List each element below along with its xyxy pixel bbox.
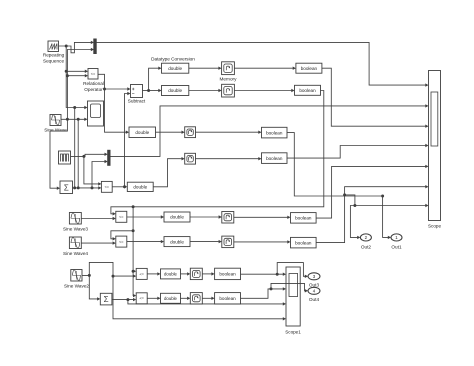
svg-text:Out4: Out4 [309,297,320,302]
wire RelOp2 -> double5 [127,215,164,218]
svg-text:Relational: Relational [83,81,104,86]
svg-text:<=: <= [119,215,124,219]
wire boolean7 -> Scope1 in1 [241,273,287,276]
svg-text:boolean: boolean [219,296,236,301]
wire Memory7 -> boolean7 [202,272,214,275]
junction Sum output row x=78.2 [77,186,80,189]
svg-text:double: double [133,185,147,190]
svg-text:Out1: Out1 [391,245,402,250]
wire RelOp5 -> double8 [147,297,160,300]
junction carrier trunk y=230.8 [132,229,135,232]
wire Sum1 -> Relational Operator5 in2 [112,298,136,301]
block Data Type Conversion double8 [161,293,181,303]
svg-text:double: double [168,88,182,93]
wire Subtract out -> double2 [143,89,162,92]
wire Memory5 -> boolean5 [234,216,291,219]
block Memory6 [222,236,234,248]
block Relational Operator1 <= [101,181,112,192]
junction on Sum output row (x=74.7) [73,186,76,189]
label Memory [220,77,238,82]
wire double2 -> Memory2 [189,89,222,92]
block Sine Wave2 [71,270,82,282]
outport Out4 [308,287,320,294]
block Data Type Conversion double4 [127,182,153,191]
label Repeating Sequence [43,53,65,64]
svg-text:boolean: boolean [266,156,283,161]
junction sine riser / RelOp in2 [66,74,69,77]
block Memory3 [185,127,196,138]
junction RepSeq trunk / RelOp in1 [65,70,68,73]
junction carrier trunk x=133.1 y=206.8 [132,205,135,208]
wire branch down -> Out2 [350,206,360,240]
svg-text:double: double [170,239,184,244]
wire Sum1 -> Scope1 in3 [128,300,286,306]
label Out2 [361,245,372,250]
svg-text:boolean: boolean [295,216,312,221]
label Relational Operator [83,81,104,92]
svg-text:double: double [164,271,178,276]
wire Memory3 -> boolean3 [196,131,262,134]
block Relational Operator4 <= [136,268,147,279]
label Scope [428,224,441,229]
svg-text:Sine Wave: Sine Wave [44,128,67,133]
junction boolean6 riser [343,193,346,196]
junction carrier trunk y=271.2 [132,270,135,273]
junction boolean8 -> Out4 branch [270,287,273,290]
block Data Type Conversion double5 [164,212,190,222]
block Data Type Conversion boolean7 [215,268,241,279]
svg-text:Sine Wave2: Sine Wave2 [64,284,89,289]
svg-text:<=: <= [139,297,144,301]
svg-text:Σ: Σ [64,183,69,192]
wire Sine Wave2 over-jog -> Relational Operator4 in2 [82,262,136,277]
svg-text:<=: <= [105,185,110,189]
wire double6 -> Memory6 [190,240,222,243]
svg-text:Sequence: Sequence [43,58,65,63]
svg-text:<=: <= [119,240,124,244]
junction Subtract output [147,89,150,92]
junction sine branch x=78.2 [77,118,80,121]
label Sine Wave4 [63,251,88,256]
block Data Type Conversion boolean5 [291,213,317,224]
outport Out2 [360,234,371,241]
wire double4 -> Memory4 (jog up) [153,157,185,187]
wire trunk -> Relational Operator5 in1 [133,271,136,297]
wire boolean1 -> Scope in3 [322,68,429,128]
block Sine Wave [50,115,61,126]
block Data Type Conversion boolean4 [262,153,288,164]
junction at Out1 drop [381,195,384,198]
wire Memory6 -> boolean6 [234,240,291,243]
block Sine Wave4 [69,237,81,249]
block Data Type Conversion boolean1 [296,63,322,73]
wire double5 -> Memory5 [190,215,222,218]
wire Mux1 -> Scope in1 [96,42,428,86]
wire RepSeq trunk down to Scope2 in1 [66,46,87,109]
block Data Type Conversion boolean2 [295,85,321,95]
svg-text:Repeating: Repeating [43,53,65,58]
svg-text:Sine Wave4: Sine Wave4 [63,251,88,256]
block Relational Operator3 <= [116,236,127,247]
block Memory5 [222,212,234,224]
wire Sine detour down to Sum input [50,119,67,190]
block Repeating Sequence [48,41,59,52]
wire RelOp1 out -> double4 [112,185,127,188]
block Scope (7-input) [429,71,441,221]
wire double7 -> Memory7 [181,272,191,275]
junction on RepSeq output [65,45,68,48]
label Out1 [391,245,402,250]
label Sine Wave3 [63,227,88,232]
svg-text:Datatype Conversion: Datatype Conversion [151,57,195,62]
block Data Type Conversion boolean6 [291,237,317,248]
block Sum (sigma) [60,181,73,194]
block Sum1 (sigma) [100,293,112,305]
outport Out1 [391,234,402,241]
block Relational Operator2 <= [116,211,127,222]
block Memory7 [190,268,202,279]
wire SW2 -> Scope1 in4 [113,276,286,320]
block Data Type Conversion boolean8 [215,293,241,304]
block Memory4 [185,153,196,164]
block Subtract [131,85,143,98]
svg-text:double: double [135,130,149,135]
wire trunk -> Relational Operator3 in1 [111,207,133,241]
svg-text:boolean: boolean [295,240,312,245]
wire Mux2 -> Scope in2 [110,104,429,156]
wire Sine Wave4 -> Relational Operator3 in2 [81,241,116,244]
junction Sine Wave2 output [88,274,91,277]
label Subtract [128,99,146,104]
wire Sine riser up to Mux1 in2 [67,48,94,120]
junction Sum output to Mux2 riser [91,186,94,189]
wire double1 -> Memory1 [189,67,222,70]
wire riser Sum -> Mux2 in2 [92,160,108,188]
block Scope1 (4-input) [286,267,300,326]
svg-text:boolean: boolean [219,272,236,277]
block Memory2 [222,84,235,97]
junction Stair output [82,155,85,158]
block Data Type Conversion double6 [164,237,190,247]
wire branch -> Out3 [277,263,308,278]
wire Sine Wave -> Scope2 in2 [61,118,88,121]
wire boolean2 -> Relational Operator2 in1 (carrier trunk) [111,91,324,216]
junction RelOp trunk / Subtract in1 [103,88,106,91]
wire double3 -> Memory3 [156,131,185,134]
wire Memory4 -> boolean4 [196,157,262,160]
svg-text:Out2: Out2 [361,245,372,250]
block Data Type Conversion double1 [162,63,189,73]
wire Sine -> Relational Operator in2 [67,74,88,77]
block Relational Operator <= [88,69,98,80]
junction Sine output riser [66,118,69,121]
wire double8 -> Memory8 [181,297,191,300]
wire branch down from Scope2 in1 line [74,108,76,188]
wire RelOp -> Subtract in1 [105,87,131,90]
svg-text:Subtract: Subtract [128,99,146,104]
junction SW2 line -> Scope1 in4 drop [112,275,115,278]
block Relational Operator5 <= [136,293,147,304]
junction RelOp1 output [123,185,126,188]
svg-text:boolean: boolean [266,130,283,135]
label Datatype Conversion [151,57,195,62]
wire Sum -> Relational Operator1 in2 [73,186,102,189]
wire riser Subtract -> double1 [149,67,162,91]
wire Memory8 -> boolean8 [202,297,214,300]
svg-text:Scope1: Scope1 [285,330,301,335]
outport Out3 [308,273,320,280]
block Memory8 [190,293,202,304]
wire branch -> Scope in7 [345,195,429,207]
mux Mux1 [94,39,96,54]
wire Sine Wave3 -> Relational Operator2 in2 [81,217,116,220]
wire boolean3 -> Out1 [287,133,391,240]
wire RelOp out -> double3 input [98,74,129,134]
label Out4 [309,297,320,302]
wire Sine Wave2 -> Sum1 input [89,275,100,300]
junction Scope2 in1 branch [73,106,76,109]
svg-text:double: double [170,215,184,220]
wire trunk -> Relational Operator4 in1 [133,231,136,273]
wire RepSeq -> Relational Operator in1 [66,70,88,73]
junction Sum1 output [126,298,129,301]
wire Memory1 -> boolean1 [234,67,296,70]
wire Stair -> Relational Operator1 in1 [84,156,102,185]
label Sine Wave [44,128,67,133]
wire Memory2 -> boolean2 [234,89,294,92]
mux Mux2 [108,150,110,165]
wire boolean5 -> Scope in5 [316,165,428,218]
wire RelOp4 -> double7 [147,272,160,275]
svg-text:Out3: Out3 [309,283,320,288]
block Data Type Conversion boolean3 [262,127,288,138]
junction boolean7 -> Out3 branch [276,273,279,276]
wire branch x=78.2 down to Sum row [77,119,79,188]
block Data Type Conversion double7 [161,269,181,279]
wire Repeating Sequence -> Mux1 in1 [59,41,95,53]
wire riser RelOp1 -> Subtract in2 [125,92,131,187]
wire Stair -> Mux2 in1 [71,153,108,157]
label Scope1 [285,330,301,335]
svg-text:<=: <= [91,72,96,76]
svg-text:Σ: Σ [104,295,109,304]
svg-text:Memory: Memory [220,77,238,82]
junction Scope in7 line [353,204,356,207]
svg-text:double: double [168,66,182,71]
svg-text:<=: <= [139,272,144,276]
wire RelOp3 -> double6 [127,240,164,243]
wire branch -> Out4 [271,283,308,292]
svg-text:Scope: Scope [428,224,441,229]
block Data Type Conversion double2 [162,86,189,96]
block Memory1 [222,62,235,75]
label Sine Wave2 [64,284,89,289]
label Out3 [309,283,320,288]
wire boolean4 -> Scope in4 [287,144,429,158]
svg-text:Sine Wave3: Sine Wave3 [63,227,88,232]
svg-text:double: double [164,296,178,301]
svg-text:boolean: boolean [301,66,318,71]
block Scope2 (small two-input scope) [88,101,104,126]
svg-text:boolean: boolean [299,88,316,93]
wire boolean6 -> Scope in6 [316,185,428,243]
svg-text:Operator: Operator [84,87,103,92]
block Repeating Sequence Stair [59,151,71,164]
block Data Type Conversion double3 [129,127,156,138]
wire boolean8 -> Scope1 in2 [241,287,287,298]
block Sine Wave3 [69,213,81,225]
